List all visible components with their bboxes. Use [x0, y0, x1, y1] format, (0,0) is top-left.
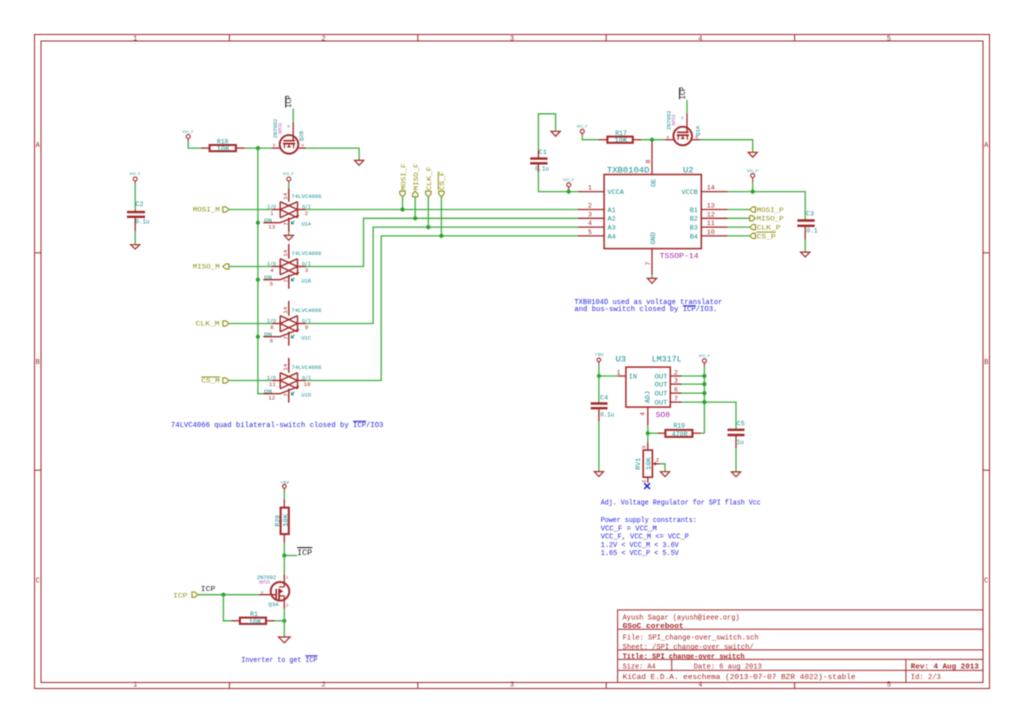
- svg-text:VCCB: VCCB: [682, 189, 698, 197]
- svg-text:CLK_F: CLK_F: [426, 166, 433, 190]
- wire B3 to CLK_P: [728, 226, 750, 228]
- svg-text:7: 7: [282, 279, 289, 282]
- transistor Q2B 2N7002: [272, 118, 307, 153]
- wire Q2B source to ground: [306, 148, 359, 160]
- power VCC_F (R17): [577, 126, 588, 136]
- wire CS_F stem: [440, 197, 442, 236]
- svg-text:11: 11: [269, 381, 277, 388]
- analog switch U1A 74LVC4066: [263, 188, 321, 232]
- regulator U3 LM317L: [616, 355, 682, 426]
- wire VCC_F to R18: [188, 141, 201, 148]
- svg-text:14: 14: [707, 185, 715, 192]
- svg-text:3: 3: [588, 211, 592, 218]
- IC U2 TXB0104D: [578, 141, 728, 275]
- svg-text:CLK_P: CLK_P: [757, 225, 781, 232]
- wire R18 to Q2B: [245, 147, 272, 149]
- wire ICP to Q3A gate: [198, 594, 259, 596]
- hierarchical label CS_F (vertical): [438, 171, 446, 197]
- svg-text:B1: B1: [690, 207, 698, 215]
- svg-text:R19: R19: [674, 423, 686, 430]
- svg-text:Rev: 4 Aug 2013: Rev: 4 Aug 2013: [911, 663, 979, 671]
- svg-text:MOSI_F: MOSI_F: [401, 163, 408, 190]
- svg-text:R20: R20: [274, 515, 281, 527]
- resistor R18: [201, 138, 245, 152]
- wire R17 to Q2A: [641, 139, 665, 141]
- svg-text:U1B: U1B: [302, 278, 312, 285]
- svg-text:LM317L: LM317L: [652, 355, 682, 365]
- hierarchical label MOSI_M: [193, 207, 229, 214]
- svg-text:RV1: RV1: [635, 458, 642, 470]
- svg-text:ICP: ICP: [173, 592, 187, 599]
- svg-text:0.1: 0.1: [807, 228, 818, 235]
- junction (ADJ node): [646, 431, 650, 435]
- svg-text:0.1u: 0.1u: [600, 412, 614, 419]
- power VCC_F (U3 out): [699, 355, 710, 366]
- svg-text:C: C: [984, 578, 988, 586]
- junction (OE node): [650, 138, 654, 142]
- svg-text:2: 2: [321, 681, 325, 689]
- wire R20 to Q3A: [283, 543, 285, 575]
- svg-text:0.1u: 0.1u: [535, 165, 549, 172]
- svg-text:10K: 10K: [217, 146, 230, 153]
- svg-text:8: 8: [270, 324, 273, 331]
- svg-text:4: 4: [588, 220, 592, 227]
- ground (C3): [801, 252, 810, 257]
- wire +5V to U3 IN: [599, 364, 618, 376]
- wire U1D to U2 A4: [306, 236, 578, 381]
- svg-text:C2: C2: [136, 201, 144, 208]
- svg-text:A3: A3: [608, 225, 616, 233]
- wire VCC_F to U1A pin14: [288, 183, 290, 188]
- svg-text:2N7002: 2N7002: [257, 574, 277, 581]
- wire VCC_F to C2: [134, 184, 136, 211]
- svg-text:10: 10: [707, 229, 715, 236]
- svg-text:GSoC coreboot: GSoC coreboot: [623, 623, 684, 631]
- capacitor C1: [530, 149, 549, 172]
- svg-text:13: 13: [268, 223, 275, 230]
- svg-text:TXB0104D: TXB0104D: [607, 166, 650, 176]
- capacitor C5: [728, 420, 746, 448]
- svg-text:C1: C1: [539, 149, 547, 156]
- svg-text:GND: GND: [650, 232, 658, 244]
- svg-text:74LVC4066: 74LVC4066: [292, 307, 322, 314]
- label /ICP (inverter output): [297, 548, 312, 558]
- ground (RV1 wiper): [660, 472, 669, 477]
- svg-text:U1C: U1C: [302, 335, 312, 342]
- svg-text:2: 2: [305, 210, 308, 217]
- analog switch U1B 74LVC4066: [263, 244, 321, 289]
- svg-text:1.65 < VCC_P < 5.5V: 1.65 < VCC_P < 5.5V: [601, 550, 680, 558]
- svg-text:File: SPI_change-over_switch.s: File: SPI_change-over_switch.sch: [623, 635, 759, 643]
- svg-text:B3: B3: [690, 225, 698, 233]
- resistor R19: [658, 423, 701, 438]
- wire C4 to ground: [598, 421, 600, 472]
- hierarchical label CS_P: [750, 232, 776, 240]
- svg-text:VCCA: VCCA: [608, 189, 625, 197]
- wire OUT3: [682, 383, 705, 385]
- wire U1C to U2 A3: [306, 227, 578, 323]
- ground (C5): [731, 472, 740, 477]
- wire ICP to Q2B gate: [292, 109, 294, 123]
- svg-text:C3: C3: [806, 210, 814, 217]
- svg-text:2: 2: [656, 457, 659, 464]
- note power constraints: [601, 517, 697, 558]
- title block: [618, 610, 983, 683]
- svg-text:A1: A1: [608, 207, 616, 215]
- svg-text:10K: 10K: [249, 618, 262, 625]
- svg-text:5: 5: [887, 36, 891, 44]
- power VCC_F (U1A pin14): [283, 173, 294, 183]
- svg-text:MISO_P: MISO_P: [757, 216, 784, 223]
- svg-text:470R: 470R: [672, 431, 688, 438]
- svg-text:7: 7: [645, 262, 652, 266]
- svg-text:A4: A4: [608, 233, 616, 241]
- junction (R18/Q2B node): [256, 146, 260, 150]
- capacitor C3: [797, 210, 817, 239]
- junction (ON bus / U1C): [256, 335, 260, 339]
- svg-text:9: 9: [305, 324, 308, 331]
- wire U2 GND pin to ground: [651, 275, 653, 279]
- svg-text:A2: A2: [608, 216, 616, 224]
- ground (Q2A): [748, 152, 757, 157]
- svg-text:Size: A4: Size: A4: [623, 663, 656, 671]
- svg-text:2: 2: [321, 36, 325, 44]
- svg-text:+5V: +5V: [595, 352, 604, 358]
- svg-text:1.2V < VCC_M < 3.6V: 1.2V < VCC_M < 3.6V: [601, 542, 680, 550]
- svg-text:C4: C4: [600, 395, 608, 402]
- ground (C4): [594, 472, 603, 477]
- hierarchical label MOSI_F (vertical): [400, 163, 408, 197]
- wire C5 to ground: [735, 448, 737, 472]
- wire CS_M to U1D: [229, 380, 272, 382]
- svg-text:ICP: ICP: [201, 586, 216, 594]
- power VCC_P (U2 VCCB): [747, 170, 758, 192]
- label /ICP vertical (Q2A gate): [678, 87, 688, 100]
- wire VCC_F rail (OUT pins): [703, 366, 705, 433]
- svg-text:MOSI_P: MOSI_P: [757, 207, 784, 214]
- junction (+5V / C4): [597, 374, 601, 378]
- wire B1 to MOSI_P: [728, 209, 750, 211]
- wire CLK_M to U1C: [229, 323, 272, 325]
- svg-text:Ayush Sagar (ayush@ieee.org): Ayush Sagar (ayush@ieee.org): [623, 615, 740, 623]
- transistor Q3A 2N7002: [257, 574, 290, 609]
- svg-text:4: 4: [698, 36, 702, 44]
- wire R1 to source node: [275, 620, 285, 622]
- wire RV1 wiper to ground: [660, 464, 665, 472]
- hierarchical label MISO_F (vertical): [413, 163, 421, 197]
- junction (CS_F / A4): [439, 234, 443, 238]
- wire CLK_F stem: [427, 197, 429, 227]
- svg-text:0.1u: 0.1u: [136, 219, 150, 226]
- svg-text:7: 7: [282, 393, 289, 396]
- ground (C1 top): [551, 131, 560, 136]
- svg-text:10: 10: [304, 381, 311, 388]
- svg-text:14: 14: [282, 306, 289, 314]
- svg-text:U1A: U1A: [302, 221, 312, 228]
- svg-text:1: 1: [133, 36, 137, 44]
- junction (MISO_F / A2): [413, 216, 417, 220]
- svg-text:CS_F: CS_F: [439, 171, 446, 190]
- svg-text:1u: 1u: [737, 439, 744, 446]
- svg-text:74LVC4066: 74LVC4066: [292, 193, 322, 200]
- junction (VCC_F / VCCA wire): [567, 190, 571, 194]
- analog switch U1D 74LVC4066: [263, 358, 321, 403]
- svg-text:OUT: OUT: [655, 400, 668, 408]
- svg-text:B: B: [36, 359, 40, 367]
- wire U1A to U2 A1: [306, 209, 578, 211]
- junction (OUT2): [702, 374, 706, 378]
- svg-text:VCC_F, VCC_M <= VCC_P: VCC_F, VCC_M <= VCC_P: [601, 534, 689, 542]
- ground (U2 pin7): [647, 278, 656, 283]
- wire U1B to U2 A2: [306, 218, 578, 266]
- hierarchical label MISO_P: [750, 216, 784, 223]
- svg-text:VCC_F = VCC_M: VCC_F = VCC_M: [601, 525, 657, 533]
- svg-text:VCC_F: VCC_F: [130, 173, 141, 177]
- svg-text:and bus-switch closed by ICP/I: and bus-switch closed by ICP/IO3.: [574, 306, 717, 314]
- svg-text:1: 1: [133, 681, 137, 689]
- wire ADJ node to R19: [648, 432, 658, 434]
- label /ICP vertical (Q2B gate): [284, 95, 294, 108]
- svg-text:Adj. Voltage Regulator for SPI: Adj. Voltage Regulator for SPI flash Vcc: [601, 500, 761, 508]
- svg-text:3: 3: [305, 267, 308, 274]
- svg-text:U2: U2: [683, 166, 694, 176]
- svg-text:7: 7: [282, 336, 289, 339]
- svg-text:2: 2: [674, 369, 678, 376]
- svg-text:3: 3: [510, 681, 514, 689]
- no-connect X (RV1 pin1): [644, 483, 650, 489]
- junction (OUT6): [702, 391, 706, 395]
- svg-text:10K: 10K: [614, 137, 627, 144]
- svg-text:SOT23: SOT23: [673, 114, 677, 125]
- wire C2 to ground: [134, 231, 136, 245]
- wire C3 to ground: [804, 240, 806, 253]
- svg-text:KiCad E.D.A. eeschema (2013-0: KiCad E.D.A. eeschema (2013-07-07 BZR 40…: [623, 674, 856, 682]
- svg-text:13: 13: [707, 203, 715, 210]
- wire stub to ICPbar label: [284, 555, 297, 557]
- svg-text:Q2B: Q2B: [298, 130, 305, 141]
- svg-text:ICP: ICP: [297, 548, 312, 558]
- wire Q2A source to ground: [700, 140, 752, 153]
- svg-text:Q2A: Q2A: [695, 125, 702, 136]
- svg-text:2N7002: 2N7002: [666, 110, 673, 130]
- svg-text:MISO_M: MISO_M: [193, 264, 220, 271]
- power +5V (R20): [280, 480, 289, 491]
- svg-text:12: 12: [268, 394, 275, 401]
- hierarchical label MOSI_P: [750, 207, 784, 214]
- svg-text:3: 3: [640, 446, 647, 449]
- svg-text:1: 1: [588, 185, 592, 192]
- svg-text:ADJ: ADJ: [645, 391, 653, 403]
- power +5V (U3): [595, 352, 604, 364]
- svg-text:CS_P: CS_P: [757, 233, 776, 240]
- svg-text:14: 14: [282, 249, 289, 257]
- svg-text:OE: OE: [650, 179, 658, 187]
- ground (U1A): [284, 235, 293, 240]
- junction (CLK_F / A3): [426, 225, 430, 229]
- hierarchical label ICP (input): [173, 592, 198, 599]
- svg-text:Sheet: /SPI change-over switch: Sheet: /SPI change-over switch/: [623, 644, 754, 652]
- svg-text:OUT: OUT: [655, 391, 668, 399]
- svg-text:5: 5: [588, 229, 592, 236]
- svg-text:CS_M: CS_M: [201, 378, 220, 385]
- hierarchical label CLK_P: [750, 225, 781, 232]
- svg-text:10K: 10K: [282, 513, 289, 526]
- svg-text:R1: R1: [250, 611, 258, 618]
- junction (MOSI_F / A1): [400, 207, 404, 211]
- svg-text:CLK_M: CLK_M: [196, 321, 220, 328]
- svg-text:OUT: OUT: [655, 382, 668, 390]
- wire OUT6: [682, 392, 705, 394]
- wire U1A pin7 to ground: [288, 232, 290, 235]
- svg-text:8: 8: [645, 160, 652, 164]
- svg-text:C: C: [36, 578, 40, 586]
- hierarchical label CS_M: [201, 377, 229, 385]
- junction (ICPbar node): [282, 553, 286, 557]
- junction (source/R1 node): [282, 619, 286, 623]
- svg-text:B4: B4: [690, 233, 698, 241]
- wire ON bus vertical (junction R18 node down to U1D ON): [258, 148, 263, 394]
- junction (OUT3): [702, 382, 706, 386]
- svg-text:11: 11: [707, 220, 715, 227]
- svg-text:2N7002: 2N7002: [272, 118, 279, 138]
- svg-text:2: 2: [588, 203, 592, 210]
- svg-text:B: B: [984, 359, 988, 367]
- svg-text:7: 7: [674, 395, 678, 402]
- svg-text:7: 7: [282, 222, 289, 225]
- wire VCCB to C3: [728, 192, 806, 220]
- power VCC_F (U2 VCCA): [563, 179, 574, 191]
- hierarchical label CLK_F (vertical): [426, 166, 433, 197]
- svg-text:14: 14: [282, 192, 289, 200]
- wire OUT7 to C5: [682, 402, 736, 429]
- wire B2 to MISO_P: [728, 217, 750, 219]
- potentiometer RV1: [635, 442, 660, 483]
- wire VCC_F to R17: [582, 136, 598, 140]
- svg-text:C5: C5: [737, 420, 745, 427]
- svg-text:Power supply constrants:: Power supply constrants:: [601, 517, 697, 525]
- ground (Q3A source): [279, 637, 291, 643]
- wire C1 top to ground: [538, 114, 555, 151]
- svg-text:OUT: OUT: [655, 373, 668, 381]
- wire ICP to Q2A gate: [686, 100, 688, 114]
- svg-text:10K: 10K: [645, 457, 652, 470]
- svg-text:6: 6: [674, 386, 678, 393]
- svg-text:R17: R17: [615, 130, 627, 137]
- svg-text:6: 6: [270, 337, 273, 344]
- junction (OUT7): [702, 400, 706, 404]
- svg-text:SOT23: SOT23: [259, 581, 270, 585]
- svg-text:Title: SPI change-over switch: Title: SPI change-over switch: [623, 653, 745, 661]
- svg-text:Q3A: Q3A: [268, 601, 279, 608]
- wire R19 to VCC_F rail: [701, 432, 705, 434]
- note 74LVC4066 usage: [171, 421, 384, 430]
- junction (ON bus / U1B): [256, 278, 260, 282]
- svg-text:74LVC4066: 74LVC4066: [292, 250, 322, 257]
- wire MISO_M to U1B: [229, 266, 272, 268]
- junction (VCC_P / VCCB wire): [751, 190, 755, 194]
- ground (C2): [131, 245, 140, 249]
- wire ADJ to R19/RV1: [647, 425, 649, 442]
- svg-text:TSSOP-14: TSSOP-14: [660, 253, 700, 261]
- svg-text:MOSI_M: MOSI_M: [193, 207, 220, 214]
- wire +5V to R20: [283, 491, 285, 500]
- svg-text:U1D: U1D: [302, 392, 312, 399]
- wire MISO_F stem: [414, 197, 416, 219]
- wire MOSI_M to U1A: [229, 209, 272, 211]
- analog switch U1C 74LVC4066: [263, 301, 321, 346]
- svg-text:R18: R18: [217, 138, 229, 145]
- power VCC_F (C2 top): [130, 173, 141, 184]
- wire gate node down to R1: [223, 595, 231, 621]
- svg-text:Date: 6 aug 2013: Date: 6 aug 2013: [694, 663, 762, 671]
- resistor R17: [599, 130, 642, 144]
- ground (Q2B): [355, 160, 364, 165]
- wire B4 to CS_P: [728, 235, 750, 237]
- resistor R1: [231, 611, 274, 625]
- svg-text:SOT23: SOT23: [279, 123, 283, 134]
- wire OUT2: [682, 375, 705, 377]
- svg-text:MISO_F: MISO_F: [413, 163, 420, 190]
- svg-text:Id: 2/3: Id: 2/3: [911, 674, 941, 682]
- svg-text:4: 4: [640, 412, 647, 416]
- capacitor C4: [591, 376, 615, 421]
- wire MOSI_F stem: [402, 197, 404, 210]
- wire source node to ground: [283, 609, 285, 637]
- transistor Q2A 2N7002: [665, 110, 701, 145]
- svg-text:3: 3: [674, 377, 678, 384]
- junction (ON bus / U1A): [256, 221, 260, 225]
- note TXB0104D usage: [574, 299, 722, 314]
- svg-text:Inverter to get ICP: Inverter to get ICP: [241, 657, 317, 665]
- note inverter: [241, 656, 317, 665]
- resistor R20: [274, 499, 289, 543]
- power VCC_F (R18): [183, 131, 194, 141]
- svg-text:1: 1: [617, 369, 621, 376]
- svg-text:12: 12: [707, 211, 715, 218]
- junction (gate/R1 node): [221, 593, 225, 597]
- svg-text:IN: IN: [629, 373, 637, 381]
- hierarchical label CLK_M: [196, 321, 229, 328]
- svg-text:5: 5: [270, 280, 273, 287]
- svg-text:74LVC4066: 74LVC4066: [292, 364, 322, 371]
- capacitor C2: [127, 201, 150, 231]
- hierarchical label MISO_M: [193, 264, 229, 271]
- wire C1 bottom to VCCA: [538, 172, 577, 192]
- svg-text:3: 3: [510, 36, 514, 44]
- svg-text:SO8: SO8: [656, 412, 671, 420]
- svg-text:U3: U3: [616, 355, 627, 365]
- svg-text:14: 14: [282, 363, 289, 371]
- svg-text:74LVC4066 quad bilateral-switc: 74LVC4066 quad bilateral-switch closed b…: [171, 422, 384, 430]
- svg-text:B2: B2: [690, 216, 698, 224]
